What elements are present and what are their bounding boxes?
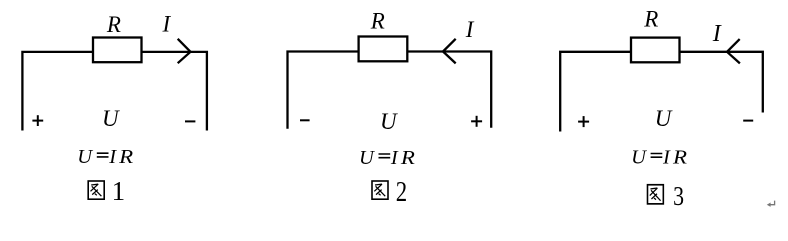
svg-text:U: U [380, 109, 398, 134]
svg-text:R: R [118, 146, 134, 168]
svg-text:U: U [359, 147, 375, 169]
svg-text:R: R [370, 9, 385, 34]
svg-text:R: R [106, 12, 121, 37]
svg-text:1: 1 [112, 176, 126, 206]
svg-text:I: I [390, 147, 399, 169]
svg-text:R: R [643, 7, 658, 32]
svg-text:2: 2 [396, 177, 407, 208]
svg-text:R: R [672, 146, 688, 168]
svg-text:3: 3 [673, 181, 684, 211]
svg-text:I: I [465, 17, 475, 42]
svg-text:I: I [712, 21, 722, 47]
svg-text:U: U [631, 146, 647, 168]
svg-text:R: R [400, 147, 416, 169]
svg-text:U: U [102, 106, 120, 131]
svg-text:I: I [662, 146, 671, 168]
svg-text:U: U [655, 106, 673, 131]
svg-text:U: U [77, 146, 93, 168]
svg-text:I: I [162, 12, 172, 37]
svg-text:I: I [108, 146, 117, 168]
